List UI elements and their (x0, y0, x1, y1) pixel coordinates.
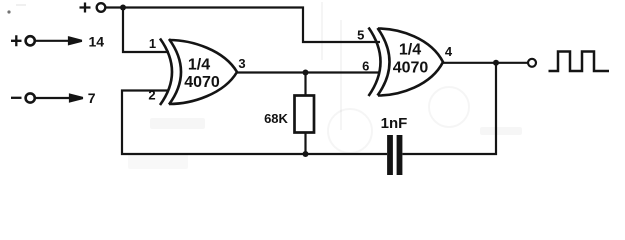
svg-text:7: 7 (88, 90, 96, 106)
svg-text:1/4: 1/4 (399, 41, 421, 58)
svg-text:4070: 4070 (393, 59, 429, 76)
svg-text:1nF: 1nF (381, 115, 408, 132)
svg-text:14: 14 (89, 33, 105, 49)
svg-text:2: 2 (148, 88, 155, 103)
svg-text:1/4: 1/4 (188, 56, 210, 73)
svg-text:1: 1 (149, 36, 156, 51)
svg-text:4070: 4070 (184, 74, 220, 91)
svg-text:3: 3 (238, 56, 245, 71)
svg-text:4: 4 (445, 44, 453, 59)
svg-text:68K: 68K (264, 111, 288, 126)
svg-text:6: 6 (362, 58, 369, 73)
svg-text:5: 5 (357, 28, 364, 43)
